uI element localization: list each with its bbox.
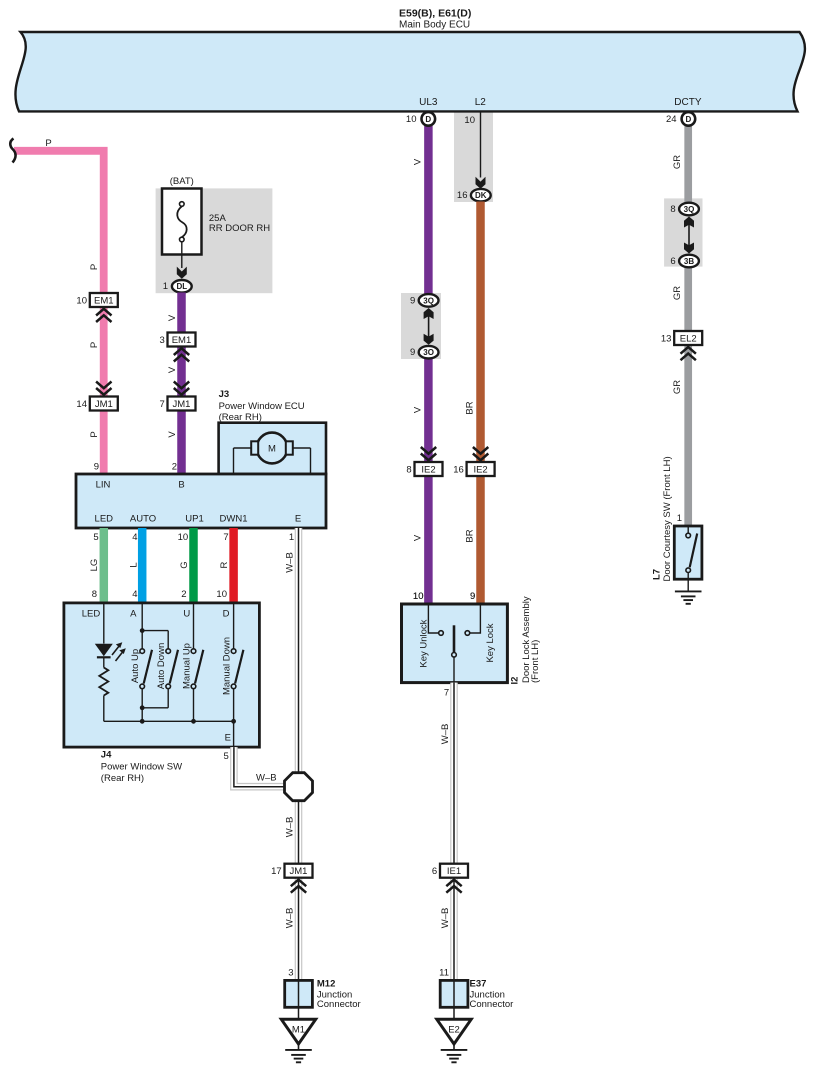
svg-text:E: E	[225, 733, 231, 744]
svg-text:W–B: W–B	[440, 908, 451, 929]
double arrow 3Q-3B	[684, 217, 694, 228]
svg-text:16: 16	[457, 190, 468, 201]
svg-text:V: V	[412, 534, 423, 541]
wire W-B from E to ground M1	[295, 528, 303, 980]
ground	[441, 1049, 468, 1051]
svg-text:3: 3	[288, 968, 293, 979]
svg-text:13: 13	[661, 333, 672, 344]
wire R	[229, 528, 238, 603]
svg-text:Power Window SW: Power Window SW	[101, 762, 182, 773]
svg-text:V: V	[167, 314, 178, 321]
svg-text:8: 8	[406, 464, 411, 475]
connector IE2 pin 8	[415, 462, 443, 476]
wire W-B from J4 E to junction	[234, 747, 285, 787]
junction octagon	[285, 773, 313, 801]
svg-text:24: 24	[666, 114, 677, 125]
key unlock contact	[428, 604, 438, 633]
connector JM1 pin 14	[90, 397, 118, 411]
svg-text:7: 7	[160, 399, 165, 410]
switch J4 box	[64, 603, 260, 747]
chevrons below EL2 pin13	[681, 347, 696, 354]
svg-text:W–B: W–B	[440, 724, 451, 745]
svg-text:LIN: LIN	[96, 480, 111, 491]
svg-text:Manual Down: Manual Down	[222, 637, 233, 695]
svg-text:16: 16	[453, 464, 464, 475]
svg-text:Main Body ECU: Main Body ECU	[399, 20, 470, 31]
svg-text:EL2: EL2	[680, 333, 697, 344]
ground triangle M1	[281, 1019, 315, 1044]
svg-text:DWN1: DWN1	[220, 514, 248, 525]
svg-text:(Rear RH): (Rear RH)	[101, 773, 144, 784]
svg-text:7: 7	[223, 532, 228, 543]
resistor	[103, 657, 105, 667]
pin 10 wire into I2	[402, 604, 508, 683]
svg-text:G: G	[179, 561, 190, 568]
fuse 25A RR DOOR RH	[162, 189, 202, 255]
svg-text:M1: M1	[292, 1024, 305, 1035]
wire V from DL to B	[177, 293, 186, 475]
svg-text:P: P	[89, 342, 100, 348]
svg-text:V: V	[412, 406, 423, 413]
wire P from page break to LIN	[14, 151, 104, 474]
svg-text:Connector: Connector	[317, 999, 361, 1010]
svg-text:3B: 3B	[684, 257, 694, 266]
connector D pin 24 (DCTY)	[682, 112, 696, 126]
svg-text:V: V	[167, 366, 178, 373]
svg-text:P: P	[89, 431, 100, 437]
svg-text:IE2: IE2	[421, 464, 435, 475]
svg-text:5: 5	[93, 532, 98, 543]
connector IE2 pin 16	[467, 462, 495, 476]
svg-text:9: 9	[410, 347, 415, 358]
svg-text:IE2: IE2	[473, 464, 487, 475]
svg-text:JM1: JM1	[173, 399, 191, 410]
connector 3Q pin 8	[679, 203, 699, 216]
switch auto down	[166, 649, 171, 654]
svg-text:P: P	[89, 264, 100, 270]
wire L2 to DK	[480, 111, 482, 177]
svg-text:(BAT): (BAT)	[170, 176, 194, 187]
svg-text:Door Courtesy SW (Front LH): Door Courtesy SW (Front LH)	[662, 456, 673, 581]
svg-text:11: 11	[439, 968, 449, 979]
svg-text:2: 2	[181, 589, 186, 600]
svg-text:7: 7	[444, 688, 449, 699]
switch manual up	[193, 603, 195, 649]
svg-text:Connector: Connector	[470, 999, 514, 1010]
wire L	[138, 528, 147, 603]
svg-text:2: 2	[172, 462, 177, 473]
svg-text:Key Lock: Key Lock	[485, 623, 496, 662]
svg-text:9: 9	[470, 591, 475, 602]
svg-text:DK: DK	[475, 191, 487, 200]
svg-text:4: 4	[132, 532, 137, 543]
switch blade	[453, 625, 456, 652]
svg-text:W–B: W–B	[256, 772, 277, 783]
wire fuse to DL	[181, 242, 183, 268]
bottom bus	[104, 720, 234, 722]
wire W-B from I2 to ground E2	[450, 683, 458, 981]
ground below L7	[675, 590, 702, 592]
svg-text:L7: L7	[652, 569, 663, 580]
svg-text:UL3: UL3	[419, 97, 438, 108]
shaded area 3Q/3B connectors	[664, 198, 702, 266]
wire G	[189, 528, 198, 603]
connector JM1 pin 7	[168, 397, 196, 411]
op motor box of J3	[219, 423, 326, 474]
svg-text:10: 10	[216, 589, 227, 600]
chevrons below EM1 pin10	[96, 309, 111, 316]
junction connector M12	[285, 980, 313, 1007]
svg-text:Power Window ECU: Power Window ECU	[219, 401, 305, 412]
switch manual down	[233, 603, 235, 649]
LED wire	[103, 603, 105, 644]
connector EL2 pin 13	[674, 331, 702, 345]
svg-text:W–B: W–B	[285, 817, 296, 838]
switch L7 box	[674, 526, 702, 579]
svg-text:5: 5	[224, 751, 229, 762]
svg-text:3O: 3O	[423, 348, 434, 357]
svg-text:D: D	[686, 115, 692, 124]
ground	[285, 1049, 312, 1051]
svg-text:10: 10	[413, 591, 424, 602]
connector EM1 pin 10	[90, 293, 118, 307]
svg-text:10: 10	[406, 114, 417, 125]
svg-text:9: 9	[94, 462, 99, 473]
terminal E of J4	[233, 721, 235, 747]
connector DL pin 1	[172, 280, 192, 293]
chevrons above IE2 pin8	[421, 454, 436, 461]
shaded area fuse block	[156, 188, 273, 293]
connector JM1 pin 17	[285, 864, 313, 878]
wire LG	[100, 528, 109, 603]
shaded area L2 connector	[454, 112, 493, 202]
svg-text:P: P	[45, 138, 51, 149]
svg-text:M12: M12	[317, 979, 335, 990]
wire V from UL3 to key unlock	[424, 126, 433, 299]
LED diode	[95, 644, 113, 656]
svg-text:B: B	[178, 480, 184, 491]
svg-text:J4: J4	[101, 750, 112, 761]
svg-text:Manual Up: Manual Up	[182, 643, 193, 689]
wire BR from DK to key lock	[476, 202, 485, 605]
svg-text:(Rear RH): (Rear RH)	[219, 412, 262, 423]
svg-text:E37: E37	[470, 979, 487, 990]
chevrons below IE1 pin6	[446, 880, 461, 887]
connector 3Q pin 9	[419, 294, 439, 307]
connector DK pin 16	[471, 189, 491, 202]
svg-text:L2: L2	[475, 97, 487, 108]
svg-text:V: V	[167, 431, 178, 438]
svg-text:(Front LH): (Front LH)	[530, 640, 541, 683]
svg-text:3: 3	[160, 335, 165, 346]
key lock contact	[470, 604, 481, 633]
svg-text:DL: DL	[176, 282, 187, 291]
svg-text:10: 10	[76, 295, 87, 306]
svg-text:8: 8	[92, 589, 97, 600]
connector 3O pin 9	[419, 346, 439, 359]
double arrow 3Q-3O	[424, 308, 434, 319]
svg-text:1: 1	[289, 532, 294, 543]
svg-text:W–B: W–B	[285, 552, 296, 573]
svg-text:D: D	[223, 609, 230, 620]
wire GR from DCTY to courtesy switch	[684, 126, 692, 527]
svg-text:IE1: IE1	[447, 866, 461, 877]
switch auto up	[141, 603, 143, 649]
connector D pin 10 (UL3)	[422, 112, 436, 126]
svg-text:1: 1	[163, 281, 168, 292]
svg-text:17: 17	[271, 866, 282, 877]
svg-text:8: 8	[670, 204, 675, 215]
LED emission arrows	[112, 646, 120, 656]
svg-text:Auto Down: Auto Down	[156, 643, 167, 689]
svg-text:6: 6	[670, 256, 675, 267]
shaded area 3Q/3O connectors	[401, 293, 441, 359]
svg-text:3Q: 3Q	[423, 296, 434, 305]
chevrons above JM1 pin14	[96, 388, 111, 395]
ECU J3 main box	[76, 474, 326, 528]
svg-text:JM1: JM1	[290, 866, 308, 877]
svg-text:14: 14	[76, 399, 87, 410]
svg-text:D: D	[425, 115, 431, 124]
connector 3B pin 6	[679, 255, 699, 268]
svg-text:GR: GR	[672, 380, 683, 394]
svg-text:R: R	[219, 561, 230, 568]
svg-text:GR: GR	[672, 286, 683, 300]
svg-text:E: E	[295, 514, 301, 525]
svg-text:BR: BR	[465, 529, 476, 542]
ground triangle E2	[437, 1019, 471, 1044]
svg-text:LED: LED	[82, 609, 101, 620]
svg-text:9: 9	[410, 295, 415, 306]
svg-text:10: 10	[178, 532, 189, 543]
svg-text:JM1: JM1	[95, 399, 113, 410]
page break squiggle	[10, 139, 15, 163]
chevrons below JM1 pin17	[291, 880, 306, 887]
chevrons below EM1 pin3	[174, 348, 189, 355]
svg-text:RR DOOR RH: RR DOOR RH	[209, 223, 270, 234]
svg-text:EM1: EM1	[94, 295, 114, 306]
chevrons above JM1 pin7	[174, 388, 189, 395]
svg-text:U: U	[183, 609, 190, 620]
svg-text:UP1: UP1	[185, 514, 203, 525]
motor M	[233, 448, 235, 474]
svg-text:A: A	[130, 609, 137, 620]
svg-text:10: 10	[464, 115, 475, 126]
svg-text:LG: LG	[89, 559, 100, 572]
svg-text:AUTO: AUTO	[130, 514, 156, 525]
connector IE1 pin 6	[440, 864, 468, 878]
svg-text:V: V	[412, 158, 423, 165]
svg-text:BR: BR	[465, 401, 476, 414]
svg-text:Auto Up: Auto Up	[130, 649, 141, 683]
svg-text:1: 1	[677, 513, 682, 524]
svg-text:I2: I2	[509, 677, 520, 685]
ECU E59/E61 Main Body ECU bar	[15, 32, 804, 111]
svg-text:6: 6	[432, 866, 437, 877]
svg-text:EM1: EM1	[172, 335, 192, 346]
svg-text:L: L	[129, 562, 140, 567]
connector EM1 pin 3	[168, 333, 196, 347]
svg-text:LED: LED	[95, 514, 114, 525]
junction connector E37	[440, 980, 468, 1007]
svg-text:3Q: 3Q	[684, 205, 695, 214]
svg-text:E2: E2	[448, 1024, 460, 1035]
svg-text:DCTY: DCTY	[674, 97, 702, 108]
svg-text:4: 4	[132, 589, 137, 600]
svg-text:W–B: W–B	[285, 908, 296, 929]
svg-text:M: M	[268, 444, 276, 455]
svg-text:E59(B), E61(D): E59(B), E61(D)	[399, 8, 471, 20]
svg-text:Key Unlock: Key Unlock	[419, 619, 430, 667]
svg-text:J3: J3	[219, 389, 230, 400]
chevrons above IE2 pin16	[473, 454, 488, 461]
svg-text:GR: GR	[672, 155, 683, 169]
